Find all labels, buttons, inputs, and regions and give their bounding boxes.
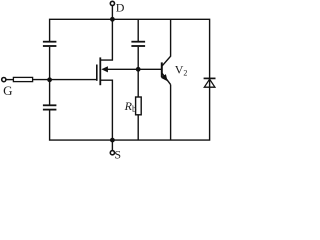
capacitor C2 (lower left) [43, 105, 57, 109]
terminal D [110, 1, 114, 19]
terminal S [110, 140, 114, 155]
svg-text:S: S [114, 147, 121, 160]
node S junction [110, 138, 115, 143]
transistor V2 emitter with arrow [161, 73, 171, 140]
wire through diode [209, 78, 211, 87]
transistor Q1 MOSFET channel bar [99, 57, 101, 85]
transistor Q1 body arrow [101, 66, 138, 72]
capacitor C3 (middle) [131, 42, 145, 46]
wire left middle (C1 to gate node) [49, 47, 51, 80]
wire gate node to C2 [49, 80, 51, 105]
wire drain lead [100, 19, 112, 60]
terminal G [2, 78, 6, 82]
wire gate lead [50, 79, 97, 81]
node gate junction [47, 77, 52, 82]
resistor (gate series, unlabeled) [13, 77, 32, 81]
svg-text:D: D [116, 1, 125, 15]
transistor Q1 MOSFET gate bar [96, 65, 98, 81]
node D junction [110, 17, 115, 22]
wire G terminal to resistor [6, 79, 13, 81]
diode VD cathode bar [204, 77, 216, 79]
transistor V2 base bar [161, 62, 163, 77]
wire node B to resistor Rb [137, 69, 139, 97]
capacitor C1 (upper left) [43, 42, 57, 46]
wire C3 branch [137, 19, 139, 69]
wire base lead [138, 68, 162, 70]
wire top rail [50, 19, 210, 78]
wire resistor to gate node [33, 79, 50, 81]
resistor Rb [136, 97, 142, 115]
wire Rb to bottom rail [137, 115, 139, 140]
node B (arrow junction) [136, 67, 141, 72]
transistor V2 collector [162, 19, 170, 66]
diode VD triangle [204, 79, 215, 87]
wire source lead [100, 80, 112, 140]
wire bottom rail [50, 87, 210, 140]
svg-text:G: G [3, 83, 12, 98]
